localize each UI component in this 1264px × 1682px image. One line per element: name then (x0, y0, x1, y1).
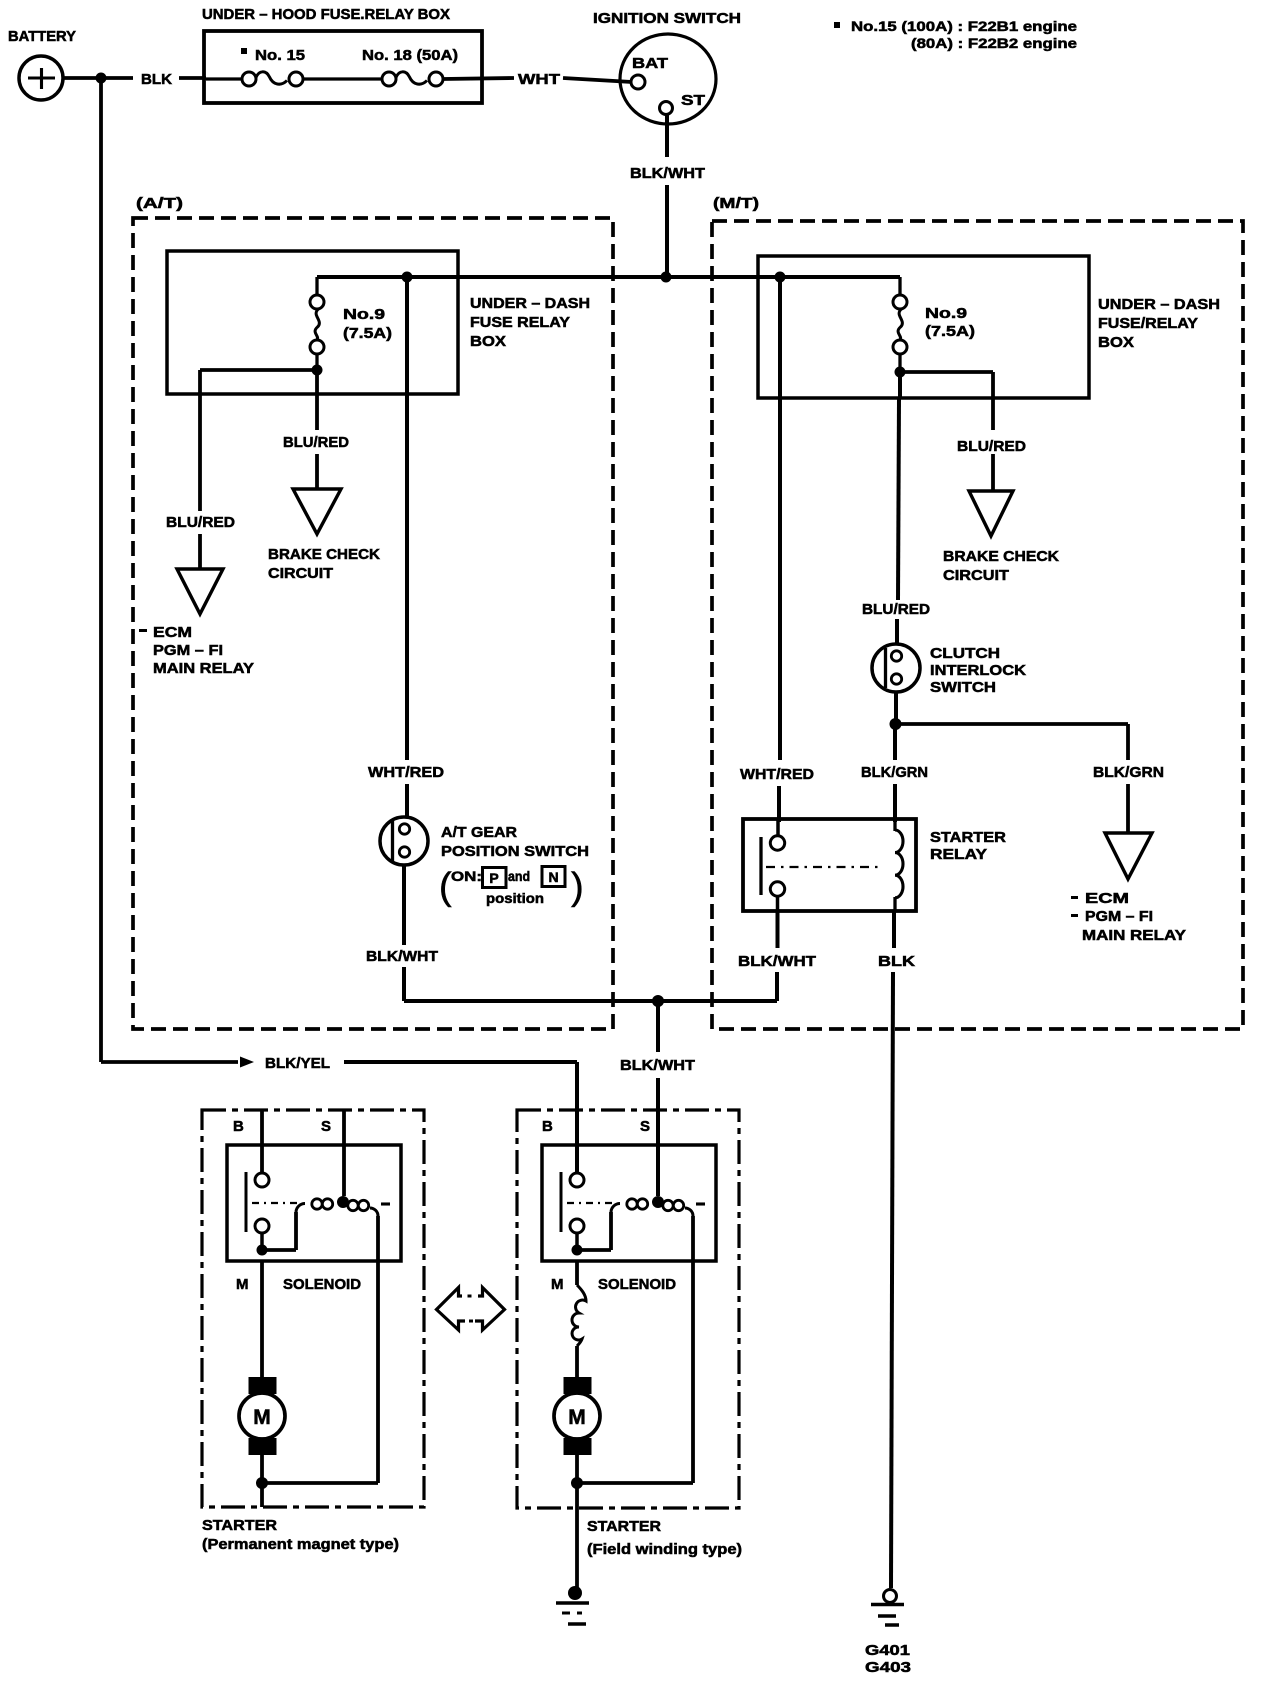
svg-text:No. 18 (50A): No. 18 (50A) (362, 47, 458, 64)
svg-text:BLU/RED: BLU/RED (283, 434, 349, 451)
svg-text:STARTER: STARTER (202, 1517, 277, 1534)
svg-text:BLK/GRN: BLK/GRN (861, 764, 928, 781)
svg-text:N: N (548, 869, 558, 885)
svg-text:MAIN RELAY: MAIN RELAY (153, 660, 254, 677)
svg-text:FUSE RELAY: FUSE RELAY (470, 314, 570, 331)
svg-text:BLK/WHT: BLK/WHT (366, 948, 438, 965)
svg-text:No. 15: No. 15 (255, 47, 305, 64)
svg-text:SOLENOID: SOLENOID (598, 1276, 676, 1293)
svg-text:ECM: ECM (153, 624, 192, 641)
svg-text:(7.5A): (7.5A) (343, 325, 392, 342)
svg-text:BRAKE CHECK: BRAKE CHECK (268, 546, 380, 563)
svg-text:No.9: No.9 (343, 306, 385, 323)
svg-text:INTERLOCK: INTERLOCK (930, 662, 1026, 679)
svg-text:BLU/RED: BLU/RED (166, 514, 235, 531)
svg-text:(80A) : F22B2 engine: (80A) : F22B2 engine (911, 35, 1077, 51)
svg-text:BLK: BLK (141, 71, 172, 88)
svg-text:(Field winding type): (Field winding type) (587, 1541, 742, 1558)
svg-text:UNDER – HOOD FUSE.RELAY BOX: UNDER – HOOD FUSE.RELAY BOX (202, 6, 450, 23)
svg-text:BOX: BOX (1098, 334, 1134, 351)
svg-text:BLU/RED: BLU/RED (957, 438, 1026, 455)
svg-text:IGNITION SWITCH: IGNITION SWITCH (593, 10, 741, 27)
svg-text:B: B (542, 1118, 553, 1135)
svg-text:BLK/WHT: BLK/WHT (630, 165, 705, 182)
svg-text:UNDER – DASH: UNDER – DASH (470, 295, 590, 312)
svg-text:): ) (571, 866, 584, 908)
svg-text:ST: ST (681, 92, 705, 109)
svg-text:No.9: No.9 (925, 305, 967, 322)
svg-text:CIRCUIT: CIRCUIT (943, 567, 1009, 584)
svg-text:PGM – FI: PGM – FI (153, 642, 223, 659)
svg-text:B: B (233, 1118, 244, 1135)
svg-text:G401: G401 (865, 1642, 910, 1659)
svg-text:and: and (508, 868, 530, 884)
svg-text:PGM – FI: PGM – FI (1085, 908, 1153, 925)
svg-text:(7.5A): (7.5A) (925, 323, 975, 340)
svg-text:BOX: BOX (470, 333, 506, 350)
svg-text:M: M (253, 1406, 271, 1429)
svg-text:FUSE/RELAY: FUSE/RELAY (1098, 315, 1198, 332)
svg-text:position: position (486, 890, 544, 906)
svg-text:BLK/GRN: BLK/GRN (1093, 764, 1164, 781)
svg-text:S: S (321, 1118, 331, 1135)
svg-text:BAT: BAT (632, 55, 668, 72)
svg-text:M: M (568, 1406, 586, 1429)
svg-text:(A/T): (A/T) (136, 195, 183, 212)
svg-text:MAIN RELAY: MAIN RELAY (1082, 927, 1186, 944)
svg-text:M: M (236, 1276, 249, 1293)
svg-text:STARTER: STARTER (930, 829, 1006, 846)
svg-text:POSITION SWITCH: POSITION SWITCH (441, 843, 589, 860)
svg-text:S: S (640, 1118, 650, 1135)
svg-text:STARTER: STARTER (587, 1518, 661, 1535)
svg-text:(Permanent magnet type): (Permanent magnet type) (202, 1536, 399, 1553)
svg-text:M: M (551, 1276, 564, 1293)
svg-text:SOLENOID: SOLENOID (283, 1276, 361, 1293)
svg-text:CLUTCH: CLUTCH (930, 645, 1000, 662)
svg-text:RELAY: RELAY (930, 846, 987, 863)
svg-text:BLK/WHT: BLK/WHT (620, 1057, 695, 1074)
svg-text:ON:: ON: (451, 868, 482, 884)
svg-text:No.15 (100A) : F22B1 engine: No.15 (100A) : F22B1 engine (851, 18, 1077, 34)
svg-text:BRAKE CHECK: BRAKE CHECK (943, 548, 1059, 565)
svg-text:BLK: BLK (878, 953, 915, 970)
svg-text:WHT/RED: WHT/RED (368, 764, 444, 781)
svg-text:UNDER – DASH: UNDER – DASH (1098, 296, 1220, 313)
svg-text:A/T GEAR: A/T GEAR (441, 824, 517, 841)
svg-text:BLK/WHT: BLK/WHT (738, 953, 816, 970)
svg-text:P: P (489, 870, 498, 886)
svg-text:G403: G403 (865, 1659, 911, 1676)
svg-text:(M/T): (M/T) (713, 195, 759, 212)
svg-text:BLU/RED: BLU/RED (862, 601, 930, 618)
svg-text:CIRCUIT: CIRCUIT (268, 565, 333, 582)
svg-text:WHT/RED: WHT/RED (740, 766, 814, 783)
svg-text:BATTERY: BATTERY (8, 28, 76, 45)
svg-text:WHT: WHT (518, 71, 560, 88)
svg-text:ECM: ECM (1085, 890, 1129, 907)
svg-text:SWITCH: SWITCH (930, 679, 996, 696)
svg-text:BLK/YEL: BLK/YEL (265, 1055, 330, 1072)
